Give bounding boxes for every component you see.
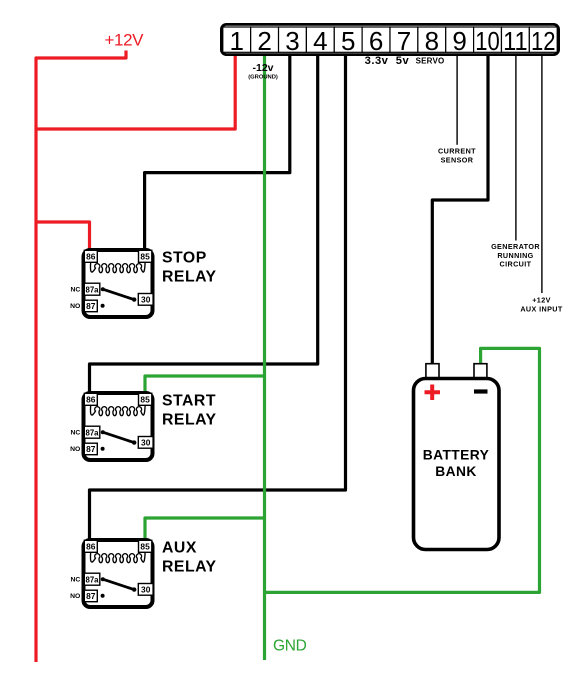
pin box 30 (AUX relay) [138,584,153,596]
svg-text:6: 6 [369,26,383,56]
svg-text:BATTERY: BATTERY [423,448,489,463]
svg-text:86: 86 [86,252,96,262]
wire red bus to STOP relay 86 [36,222,90,252]
svg-text:85: 85 [140,252,150,262]
wire black pin5 to AUX relay 86 [90,55,346,542]
svg-text:NC: NC [70,287,80,294]
svg-text:AUX: AUX [162,540,197,557]
svg-text:START: START [162,393,216,410]
pin box 87 (START relay) [84,443,97,455]
svg-text:5: 5 [341,26,355,56]
pin box 87a (START relay) [84,426,100,438]
svg-text:9: 9 [452,26,466,56]
svg-text:87: 87 [86,444,96,454]
label BATTERY BANK [423,448,489,479]
label AUX RELAY [162,540,217,576]
switch armature 87a-30 (START relay) [101,430,137,451]
svg-text:RELAY: RELAY [162,559,217,576]
wire green bus to AUX relay 85 [145,518,265,542]
label START RELAY [162,393,217,429]
switch armature 87a-30 (STOP relay) [101,287,137,308]
coil (START relay) [90,405,145,415]
label +12V AUX INPUT [520,296,563,314]
svg-text:GENERATOR: GENERATOR [491,242,540,251]
wire red +12V feed to left bus [36,51,126,663]
svg-text:7: 7 [397,26,411,56]
svg-text:STOP: STOP [162,250,207,267]
battery negative terminal post [474,364,487,379]
svg-text:87a: 87a [85,428,99,437]
svg-text:30: 30 [141,295,151,305]
pin box 87 (AUX relay) [84,590,97,602]
svg-text:GND: GND [273,637,307,654]
label GENERATOR RUNNING CIRCUIT [491,242,540,269]
wire red pin1 to left bus [36,55,235,129]
svg-text:NO: NO [70,303,80,310]
svg-text:NO: NO [70,446,80,453]
pin box 87a (AUX relay) [84,573,100,585]
pin box 85 (STOP relay) [139,250,152,262]
pin box 30 (STOP relay) [138,294,153,306]
wire thin pin9 current sensor stub [456,55,458,145]
battery BATTERY BANK body [414,379,500,550]
wire green pin2 ground bus [263,55,266,660]
svg-text:3: 3 [285,26,299,56]
pin box 87a (STOP relay) [84,283,100,295]
wire thin pin11 generator running circuit stub [515,55,517,241]
svg-text:RUNNING: RUNNING [497,251,533,260]
svg-text:SERVO: SERVO [416,57,445,66]
label CURRENT SENSOR [438,146,476,164]
svg-text:85: 85 [140,395,150,405]
relay AUX RELAY body [84,540,153,607]
svg-text:+12V: +12V [105,31,145,50]
svg-text:86: 86 [86,542,96,552]
pin box 85 (AUX relay) [139,540,152,552]
svg-text:RELAY: RELAY [162,412,217,429]
svg-text:87a: 87a [85,575,99,584]
wire black pin10 to battery positive [432,55,488,366]
pin box 30 (START relay) [138,437,153,449]
svg-text:2: 2 [257,26,271,56]
svg-text:4: 4 [313,26,327,56]
label STOP RELAY [162,250,217,286]
svg-text:87: 87 [86,301,96,311]
svg-text:30: 30 [141,438,151,448]
svg-text:85: 85 [140,542,150,552]
pin box 87 (STOP relay) [84,300,97,312]
svg-text:87: 87 [86,591,96,601]
svg-text:12: 12 [531,26,556,56]
svg-text:30: 30 [141,585,151,595]
connector J1 12-pin terminal block [221,24,558,56]
svg-text:NO: NO [70,593,80,600]
pin box 86 (STOP relay) [84,250,97,262]
svg-text:AUX INPUT: AUX INPUT [520,305,563,314]
svg-text:CURRENT: CURRENT [438,146,476,155]
svg-text:87a: 87a [85,285,99,294]
battery positive terminal post [426,364,439,379]
svg-text:11: 11 [503,26,528,56]
svg-text:86: 86 [86,395,96,405]
svg-text:CIRCUIT: CIRCUIT [500,260,532,269]
svg-text:1: 1 [229,26,243,56]
wire thin pin12 aux input stub [541,55,543,293]
relay START RELAY body [84,393,153,460]
switch armature 87a-30 (AUX relay) [101,577,137,598]
pin box 85 (START relay) [139,393,152,405]
battery minus symbol [474,389,488,393]
pin box 86 (START relay) [84,393,97,405]
wire black pin4 to START relay 86 [90,55,318,395]
wire green bus to START relay 85 [145,376,265,395]
svg-text:+12V: +12V [532,296,551,305]
svg-text:NC: NC [70,577,80,584]
svg-text:10: 10 [475,26,500,56]
svg-text:SENSOR: SENSOR [441,155,474,164]
battery plus symbol [425,385,441,401]
svg-text:3.3v: 3.3v [365,55,389,67]
pin box 86 (AUX relay) [84,540,97,552]
svg-text:(GROUND): (GROUND) [248,75,278,81]
svg-text:BANK: BANK [435,464,476,479]
coil (AUX relay) [90,552,145,562]
svg-text:5v: 5v [396,55,410,67]
label -12v (GROUND) under pin 2 [248,62,278,81]
svg-text:-12v: -12v [252,62,273,74]
svg-text:RELAY: RELAY [162,269,217,286]
wire green battery negative to ground bus [265,348,540,592]
svg-text:8: 8 [425,26,439,56]
svg-text:NC: NC [70,430,80,437]
wire black pin3 to STOP relay 85 [145,55,290,252]
coil (STOP relay) [90,262,145,272]
relay STOP RELAY body [84,250,153,317]
